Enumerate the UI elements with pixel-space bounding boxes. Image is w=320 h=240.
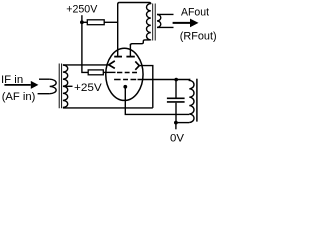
wire +250V to R1 bbox=[82, 21, 87, 23]
resistor R2 (screen grid feed) bbox=[88, 70, 103, 75]
node junction dot 0V bbox=[174, 121, 178, 125]
wire right deflector lead bbox=[139, 66, 153, 108]
resistor R1 (anode load to transformer) bbox=[87, 20, 104, 25]
transformer T1 secondary winding bbox=[63, 65, 68, 107]
capacitor C1 plates bbox=[167, 98, 185, 102]
wire T1 primary bottom lead bbox=[38, 93, 50, 95]
wire left anode vertical rail bbox=[118, 3, 120, 57]
node junction dot at +250V rail bbox=[80, 20, 84, 24]
svg-text:(AF in): (AF in) bbox=[2, 91, 36, 103]
cathode dot bbox=[123, 85, 127, 89]
grid G1 dashes (lower row) bbox=[114, 79, 136, 81]
wire 0V stub bbox=[175, 123, 177, 130]
wire right anode vertical lead bbox=[129, 44, 131, 56]
deflector electrode right (arrow) bbox=[135, 61, 139, 69]
inductor L1 winding bbox=[189, 80, 194, 123]
wire T2 secondary top lead bbox=[157, 13, 174, 15]
wire 0V rail bbox=[176, 122, 189, 124]
wire T1 secondary bottom / line A to deflector drop bbox=[63, 107, 153, 109]
transformer T2 secondary winding bbox=[157, 14, 161, 27]
svg-text:AFout: AFout bbox=[181, 7, 210, 19]
transformer T1 core bbox=[59, 64, 61, 109]
wire lower grid to tank rail bbox=[138, 79, 191, 81]
svg-text:(RFout): (RFout) bbox=[180, 30, 217, 42]
node junction dot tank top bbox=[174, 78, 178, 82]
wire R2 to screen grid bbox=[103, 71, 115, 73]
transformer T1 primary top lead bbox=[39, 78, 50, 80]
wire T1 secondary top to left deflector bbox=[63, 64, 109, 66]
arrow IF input bbox=[4, 84, 30, 86]
svg-text:0V: 0V bbox=[170, 132, 184, 144]
svg-text:+25V: +25V bbox=[74, 82, 102, 94]
transformer T1 primary winding bbox=[50, 79, 56, 94]
svg-text:+250V: +250V bbox=[66, 3, 97, 15]
transformer T2 primary winding bbox=[147, 4, 151, 40]
arrow AF output bbox=[173, 22, 190, 24]
anode plate right bbox=[126, 56, 134, 58]
wire +250V dropper vertical bbox=[82, 22, 88, 72]
wire +25V tap on T1 secondary bbox=[63, 85, 73, 87]
wire cathode lead down and right to coil tap bbox=[125, 88, 189, 114]
capacitor C1 bottom lead bbox=[175, 103, 177, 123]
wire T2 primary bottom to right anode bbox=[130, 40, 150, 46]
transformer T2 core bbox=[153, 4, 156, 41]
deflector electrode left (arrow) bbox=[109, 61, 115, 69]
wire R1 to left anode rail bbox=[104, 21, 118, 23]
capacitor C1 top lead bbox=[175, 80, 177, 98]
anode plate left bbox=[114, 56, 122, 58]
grid G2 dashes (upper row) bbox=[117, 72, 137, 74]
inductor L1 core bbox=[196, 79, 198, 122]
wire top rail to transformer primary bbox=[119, 3, 150, 5]
wire T2 secondary bottom lead bbox=[157, 26, 174, 28]
tube V1 envelope bbox=[106, 48, 143, 100]
wire +250V stub bbox=[81, 15, 83, 22]
